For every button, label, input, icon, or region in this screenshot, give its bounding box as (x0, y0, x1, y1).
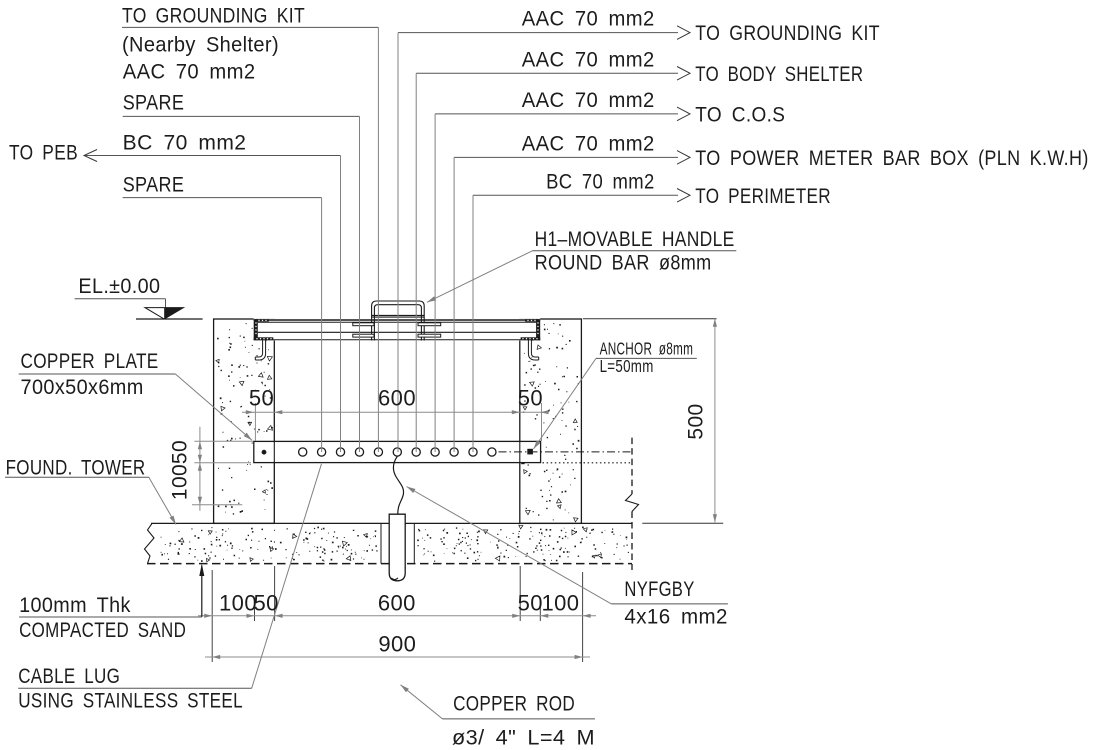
underline copper plate (19, 373, 176, 375)
underline h1 movable handle (532, 250, 736, 252)
underline anchor (596, 357, 697, 359)
movable handle H1 (372, 301, 425, 341)
svg-text:TO PERIMETER: TO PERIMETER (695, 185, 831, 208)
underline copper rod (443, 718, 596, 720)
lid J-hook left (255, 340, 265, 360)
wire cable aac4 to power meter (454, 151, 690, 452)
lid left end angle (254, 319, 274, 340)
left embed anchor dot (262, 450, 267, 455)
dimension row 50-600-50 (242, 403, 549, 441)
ground level line left stub (136, 318, 203, 320)
leader found tower (149, 477, 176, 524)
dimension row 100-50-600-50-100 (212, 566, 582, 662)
EL level symbol (75, 299, 184, 319)
lid J-hook right (528, 340, 538, 360)
svg-text:100: 100 (541, 590, 579, 615)
NYFGBY cable wavy (393, 456, 403, 514)
svg-text:50: 50 (518, 386, 543, 411)
svg-text:900: 900 (378, 631, 416, 656)
svg-text:BC 70 mm2: BC 70 mm2 (546, 170, 655, 193)
wire cable aac3 to cos (435, 107, 690, 452)
underline found tower (5, 476, 149, 478)
svg-text:ø3/ 4" L=4 M: ø3/ 4" L=4 M (452, 727, 595, 750)
svg-text:FOUND. TOWER: FOUND. TOWER (6, 456, 146, 479)
svg-text:TO GROUNDING KIT: TO GROUNDING KIT (122, 4, 305, 27)
svg-text:AAC 70 mm2: AAC 70 mm2 (522, 8, 655, 31)
svg-text:EL.±0.00: EL.±0.00 (78, 275, 160, 298)
underline 100mm thk (19, 616, 202, 618)
wire cable aac2 to body shelter (416, 67, 690, 453)
svg-text:H1–MOVABLE HANDLE: H1–MOVABLE HANDLE (535, 228, 735, 251)
left concrete wall (214, 319, 275, 523)
svg-text:50: 50 (518, 590, 543, 615)
svg-text:USING STAINLESS STEEL: USING STAINLESS STEEL (18, 690, 243, 713)
svg-text:AAC 70 mm2: AAC 70 mm2 (522, 132, 655, 155)
anchor centerline dash-dot (499, 451, 633, 453)
TO PEB arrow (84, 150, 97, 162)
wire cable spare 2 (123, 198, 322, 452)
underline nyfgby (611, 603, 728, 605)
svg-text:COPPER ROD: COPPER ROD (453, 693, 575, 716)
copper plate 700x50x6 (254, 441, 541, 462)
svg-text:TO BODY SHELTER: TO BODY SHELTER (695, 63, 863, 86)
svg-text:TO GROUNDING KIT: TO GROUNDING KIT (695, 22, 880, 45)
svg-text:CABLE LUG: CABLE LUG (18, 665, 120, 688)
svg-text:AAC 70 mm2: AAC 70 mm2 (522, 48, 655, 71)
wire cable to grounding kit nearby shelter (122, 27, 378, 452)
svg-text:50: 50 (254, 590, 279, 615)
wire cable bc to perimeter (473, 189, 690, 453)
plate bolt holes (299, 448, 307, 456)
dimension 500 (642, 319, 723, 524)
svg-text:100mm Thk: 100mm Thk (19, 594, 131, 617)
svg-text:(Nearby Shelter): (Nearby Shelter) (122, 34, 279, 57)
svg-text:AAC 70 mm2: AAC 70 mm2 (123, 60, 256, 83)
leader copper plate (175, 374, 252, 440)
svg-text:TO C.O.S: TO C.O.S (695, 103, 785, 126)
handle retaining brackets (353, 323, 441, 337)
right embed anchor (521, 449, 533, 464)
pit lid cover (254, 318, 541, 340)
leader handle H1 (427, 251, 532, 302)
svg-text:ROUND BAR ø8mm: ROUND BAR ø8mm (535, 252, 712, 275)
leader 100mm thk (199, 564, 204, 617)
svg-text:COMPACTED SAND: COMPACTED SAND (19, 619, 186, 642)
plate bottom hidden line (543, 462, 633, 464)
svg-text:700x50x6mm: 700x50x6mm (21, 376, 144, 399)
svg-text:TO PEB: TO PEB (9, 142, 78, 165)
underline cable lug (18, 687, 252, 689)
leader cable lug (252, 464, 322, 688)
right concrete wall (520, 319, 582, 523)
leader anchor (534, 358, 597, 449)
dimension left 50-100 (192, 427, 253, 511)
leader copper rod (401, 685, 443, 719)
svg-text:BC 70 mm2: BC 70 mm2 (123, 132, 247, 155)
svg-text:SPARE: SPARE (123, 91, 185, 114)
lid right end angle (521, 319, 541, 340)
hole in sand for copper rod (381, 523, 414, 563)
svg-text:600: 600 (378, 386, 416, 411)
svg-text:100: 100 (219, 590, 257, 615)
svg-text:COPPER PLATE: COPPER PLATE (21, 350, 159, 373)
svg-text:50: 50 (249, 386, 274, 411)
svg-text:SPARE: SPARE (123, 174, 185, 197)
wire cable aac1 to grounding kit (398, 26, 690, 452)
ground level line right (583, 318, 717, 320)
compacted sand layer (145, 523, 633, 563)
svg-text:600: 600 (378, 590, 416, 615)
svg-text:NYFGBY: NYFGBY (624, 578, 694, 601)
svg-text:AAC 70 mm2: AAC 70 mm2 (522, 89, 655, 112)
wire cable spare 1 (123, 116, 360, 452)
svg-text:500: 500 (685, 403, 708, 439)
leader nyfgby (407, 487, 612, 604)
svg-text:50: 50 (169, 440, 192, 464)
copper rod (389, 514, 405, 581)
section break dashed line (626, 438, 639, 570)
wire cable bc 70 to peb (85, 156, 341, 453)
svg-text:4x16 mm2: 4x16 mm2 (624, 606, 728, 629)
svg-text:100: 100 (169, 464, 192, 500)
dimension 900 (205, 655, 590, 659)
svg-text:L=50mm: L=50mm (600, 356, 654, 376)
svg-text:TO POWER METER BAR BOX (PLN K.: TO POWER METER BAR BOX (PLN K.W.H) (695, 147, 1088, 170)
